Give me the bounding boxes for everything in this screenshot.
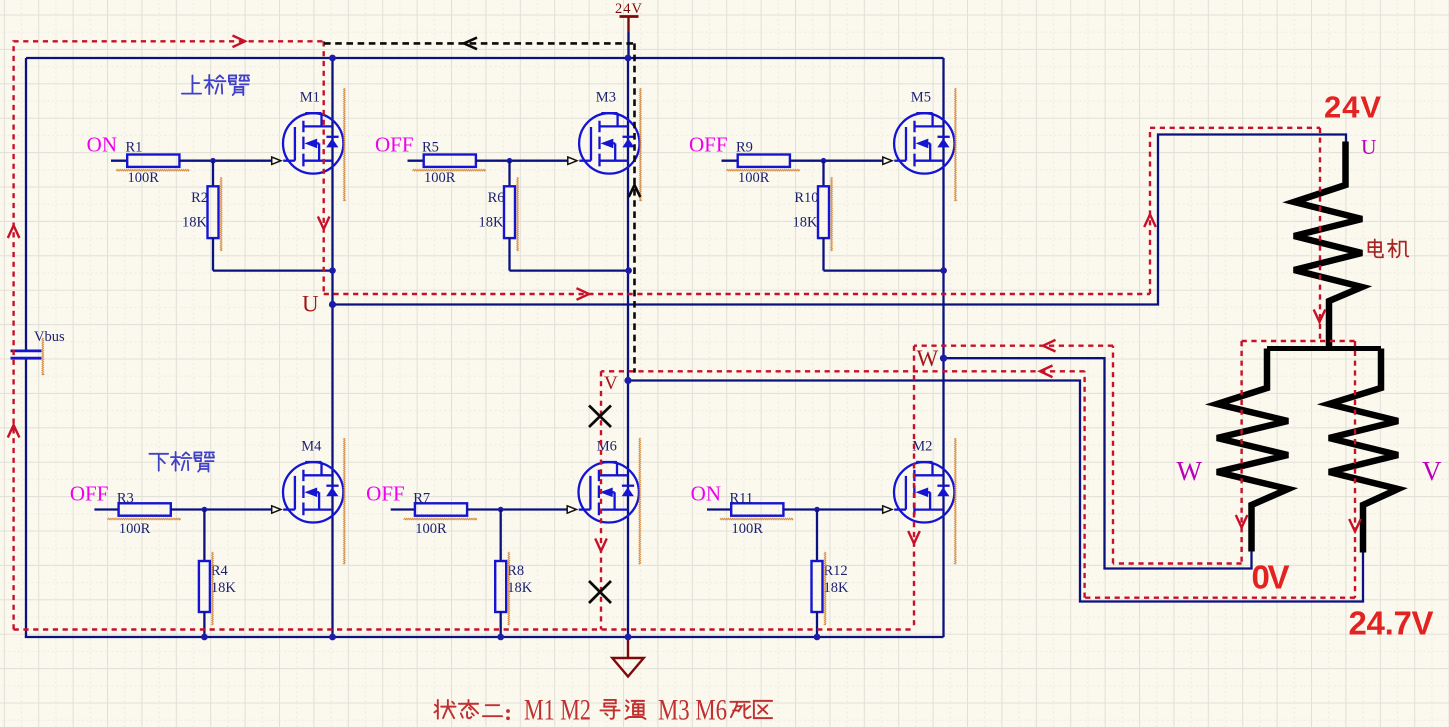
transistor M6 (N-MOSFET) xyxy=(579,462,639,523)
gate input arrow of M5 xyxy=(883,157,892,164)
gate input arrow of M3 xyxy=(568,157,577,164)
current path: V net return xyxy=(601,371,1355,597)
wire W half-bridge column (M5 drain to M2 source) xyxy=(942,58,944,637)
wire gate net M2 xyxy=(817,508,884,510)
resistor R2 18K (gate pull-down) xyxy=(182,161,218,271)
junction gate/R2 node xyxy=(210,158,216,164)
svg-text:M5: M5 xyxy=(911,90,931,106)
svg-text:R4: R4 xyxy=(211,563,229,579)
junction R12 on ground rail xyxy=(814,634,821,641)
gate input arrow of M6 xyxy=(567,506,576,513)
svg-text:Vbus: Vbus xyxy=(34,329,65,345)
blocked mark X (below M6) xyxy=(589,581,611,603)
current arrow through M2 downward xyxy=(908,531,920,544)
svg-text:M3: M3 xyxy=(596,90,616,106)
svg-text:18K: 18K xyxy=(182,215,208,231)
svg-text:100R: 100R xyxy=(128,170,160,186)
motor winding W (thick coil) xyxy=(1217,349,1288,552)
current arrow V return leftward xyxy=(1040,366,1053,378)
resistor R10 18K (gate pull-down) xyxy=(793,161,829,271)
error squiggle beside M4 xyxy=(344,438,346,564)
junction U column on 24V rail xyxy=(329,55,336,62)
svg-text:V: V xyxy=(604,373,618,394)
svg-text:W: W xyxy=(917,346,939,371)
svg-text:W: W xyxy=(1177,456,1203,486)
svg-text:R3: R3 xyxy=(117,490,134,506)
wire U half-bridge column (M1 drain to M4 source) xyxy=(331,58,333,637)
wire net U to motor xyxy=(333,135,1347,305)
error squiggle beside R12 xyxy=(824,552,826,625)
wire R6 return to source xyxy=(510,269,629,271)
error squiggle beside M5 xyxy=(955,88,957,201)
label lower bridge arm (xia qiao bi) xyxy=(149,452,214,472)
wire gate net M3 xyxy=(510,160,570,162)
junction R6 return on column xyxy=(625,267,632,274)
junction node V xyxy=(624,377,631,384)
wire R2 return to source xyxy=(213,269,333,271)
resistor R7 100R (gate series) xyxy=(391,490,501,537)
svg-text:R5: R5 xyxy=(422,139,439,155)
svg-text:24V: 24V xyxy=(1324,90,1381,125)
svg-text:100R: 100R xyxy=(732,521,764,537)
motor winding U (thick coil) xyxy=(1294,142,1362,349)
blocked mark X (above M6) xyxy=(589,406,611,428)
error squiggle beside M6 xyxy=(639,438,641,564)
junction M4 source on ground rail xyxy=(329,634,336,641)
current path: through winding V xyxy=(1354,341,1356,598)
resistor R6 18K (gate pull-down) xyxy=(479,161,515,271)
resistor R9 100R (gate series) xyxy=(722,139,824,186)
error squiggle under R9 xyxy=(727,169,800,171)
label upper bridge arm (shang qiao bi) xyxy=(182,75,249,95)
ground xyxy=(612,637,643,677)
power port 24V xyxy=(615,1,643,58)
wire bottom ground rail xyxy=(25,636,944,638)
error squiggle under R11 xyxy=(720,518,793,520)
svg-text:24V: 24V xyxy=(615,1,643,17)
current path: bottom return xyxy=(14,628,914,630)
current arrow U net rightward xyxy=(577,288,590,300)
dead-zone arrow leftward xyxy=(464,38,477,50)
current arrow left rail upward (upper) xyxy=(8,226,20,239)
svg-text:M1 M2: M1 M2 xyxy=(524,694,591,727)
wire V half-bridge column (M3 drain to M6 source) xyxy=(627,58,629,637)
resistor R4 18K (gate pull-down) xyxy=(199,510,237,638)
svg-text:OFF: OFF xyxy=(70,481,109,505)
wire motor star point bar xyxy=(1267,346,1381,351)
resistor R12 18K (gate pull-down) xyxy=(812,510,850,638)
motor winding V (thick coil) xyxy=(1329,349,1398,553)
svg-text:R12: R12 xyxy=(824,563,848,579)
transistor M2 (N-MOSFET) xyxy=(894,462,954,523)
status text: state 2, M1 M2 conduct, M3 M6 dead zone xyxy=(434,694,772,727)
gate input arrow of M4 xyxy=(272,506,281,513)
current path: supply loop left side xyxy=(14,41,324,629)
error squiggle under R5 xyxy=(413,169,486,171)
svg-text:18K: 18K xyxy=(479,215,505,231)
svg-text:M2: M2 xyxy=(912,439,932,455)
wire R10 return to source xyxy=(824,269,944,271)
wire gate net M1 xyxy=(213,160,273,162)
svg-text:V: V xyxy=(1422,456,1442,486)
junction gate/R10 node xyxy=(821,158,827,164)
current path: through winding W xyxy=(1240,341,1242,564)
svg-text:24.7V: 24.7V xyxy=(1349,605,1434,642)
error squiggle beside R4 xyxy=(212,552,214,625)
error squiggle beside R8 xyxy=(508,552,510,625)
error squiggle beside R2 xyxy=(220,177,222,251)
current path: through M1 xyxy=(323,41,325,294)
transistor M1 (N-MOSFET) xyxy=(283,113,343,174)
svg-text:100R: 100R xyxy=(424,170,456,186)
svg-text:M3 M6: M3 M6 xyxy=(658,694,727,727)
svg-text:0V: 0V xyxy=(1252,559,1290,596)
error squiggle beside R6 xyxy=(517,177,519,251)
capacitor Vbus xyxy=(11,329,65,358)
error squiggle beside M2 xyxy=(955,438,957,564)
resistor R3 100R (gate series) xyxy=(94,490,204,537)
wire gate net M5 xyxy=(824,160,885,162)
junction gate/R8 node xyxy=(498,507,504,513)
transistor M3 (N-MOSFET) xyxy=(579,113,639,174)
svg-text:U: U xyxy=(302,292,319,317)
current arrow left rail upward (lower) xyxy=(8,425,20,438)
error squiggle under R1 xyxy=(116,169,189,171)
error squiggle beside M1 xyxy=(344,88,346,201)
svg-text:OFF: OFF xyxy=(375,133,414,157)
resistor R5 100R (gate series) xyxy=(408,139,510,186)
current arrow winding U downward xyxy=(1314,310,1326,323)
current path: split at motor star xyxy=(1242,340,1355,342)
junction R8 on ground rail xyxy=(497,634,504,641)
svg-text:M6: M6 xyxy=(597,439,617,455)
svg-text:18K: 18K xyxy=(793,215,819,231)
svg-text:ON: ON xyxy=(691,481,721,505)
current arrow through M6 downward (blocked) xyxy=(595,539,607,552)
wire net V to motor xyxy=(628,381,1363,602)
current path: through M2 to ground xyxy=(913,346,915,630)
current arrow winding V downward xyxy=(1349,519,1361,532)
wire gate net M4 xyxy=(204,508,273,510)
resistor R11 100R (gate series) xyxy=(707,490,817,537)
svg-text:R2: R2 xyxy=(191,190,208,206)
junction node U xyxy=(329,301,336,308)
svg-text:R1: R1 xyxy=(126,139,143,155)
svg-text:ON: ON xyxy=(87,133,117,157)
svg-text:U: U xyxy=(1361,135,1377,159)
wire left rail upper segment xyxy=(25,58,27,351)
current arrow W return leftward xyxy=(1043,340,1056,352)
gate input arrow of M1 xyxy=(272,157,281,164)
error squiggle beside R10 xyxy=(831,177,833,251)
svg-text:R9: R9 xyxy=(736,139,753,155)
junction node W xyxy=(940,355,947,362)
wire net W to motor xyxy=(944,358,1252,568)
junction gate/R12 node xyxy=(814,507,820,513)
resistor R1 100R (gate series) xyxy=(111,139,213,186)
error squiggle beside M3 xyxy=(640,88,642,201)
svg-text:OFF: OFF xyxy=(366,481,405,505)
svg-text:R11: R11 xyxy=(730,490,754,506)
error squiggle under R3 xyxy=(107,518,180,520)
current path: W return xyxy=(914,346,1242,564)
junction V column / 24V stub on rail xyxy=(625,55,632,62)
current arrow through M1 downward xyxy=(318,217,330,230)
svg-text:R6: R6 xyxy=(488,190,505,206)
svg-text:R10: R10 xyxy=(794,190,818,206)
svg-text:R7: R7 xyxy=(413,490,430,506)
svg-text:M1: M1 xyxy=(300,90,320,106)
svg-text:M4: M4 xyxy=(301,439,322,455)
transistor M5 (N-MOSFET) xyxy=(894,113,954,174)
svg-text:100R: 100R xyxy=(119,521,151,537)
resistor R8 18K (gate pull-down) xyxy=(495,510,533,638)
svg-text:18K: 18K xyxy=(211,580,237,596)
dead-zone arrow upward through M3 xyxy=(629,185,641,197)
dead-zone path: from 24V node leftward xyxy=(324,42,635,45)
svg-text:18K: 18K xyxy=(507,580,533,596)
svg-text:OFF: OFF xyxy=(689,133,728,157)
current path: V net through M6 (blocked) xyxy=(600,371,602,629)
current arrow top rail rightward xyxy=(233,36,246,48)
junction R2 return on column xyxy=(329,267,336,274)
junction gate/R6 node xyxy=(507,158,513,164)
error squiggle under R7 xyxy=(404,518,477,520)
svg-text:100R: 100R xyxy=(738,170,770,186)
junction R10 return on column xyxy=(940,267,947,274)
label motor (dianji) xyxy=(1368,239,1408,257)
svg-text:18K: 18K xyxy=(824,580,850,596)
junction M6 source on ground rail xyxy=(625,634,632,641)
junction gate/R4 node xyxy=(202,507,208,513)
current path: U net xyxy=(324,128,1320,341)
error squiggle Vbus xyxy=(42,338,44,375)
svg-text:R8: R8 xyxy=(507,563,524,579)
gate input arrow of M2 xyxy=(883,506,892,513)
wire left rail lower segment xyxy=(25,358,27,637)
transistor M4 (N-MOSFET) xyxy=(283,462,343,523)
junction R4 on ground rail xyxy=(201,634,208,641)
current arrow winding W downward xyxy=(1236,515,1248,528)
svg-text:100R: 100R xyxy=(415,521,447,537)
wire gate net M6 xyxy=(501,508,569,510)
current arrow U net upward xyxy=(1144,215,1156,228)
wire top +24V rail xyxy=(26,57,944,59)
dead-zone path: through M3 xyxy=(633,43,636,372)
